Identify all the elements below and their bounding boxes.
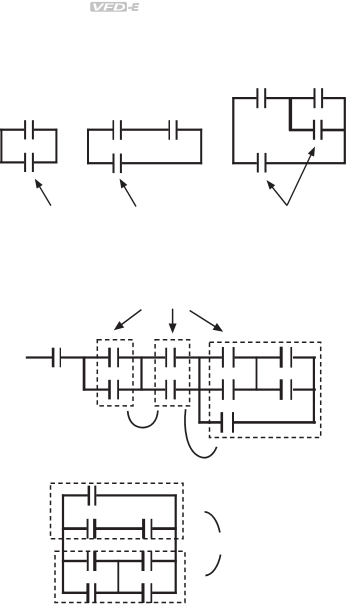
wire F2 top rail [87, 129, 113, 131]
arrow to F3 middle contact [287, 153, 312, 206]
wire F1 left vertical [0, 129, 2, 164]
arrow to F1 bottom contact [38, 184, 51, 205]
middle ladder diagram [26, 309, 321, 458]
contact F3 middle [313, 120, 315, 140]
dashed box 2 [155, 340, 190, 406]
contact F1 top [24, 120, 26, 139]
contact row D left [86, 583, 89, 603]
wire right rail of network [313, 356, 315, 423]
wire F2 left vertical [87, 129, 89, 165]
contact F3 top-right [314, 88, 316, 108]
wire right rail [175, 494, 177, 594]
fragment 3: bridge network [232, 88, 346, 205]
junction vertical J1 bold [83, 356, 86, 390]
curved arc under box1-box2 [128, 411, 158, 428]
contact A box3 row1 left [222, 347, 224, 368]
wire F3 right vertical [344, 97, 346, 164]
contact row C right [142, 551, 145, 571]
wire F3 top rail [232, 97, 256, 99]
junction vertical rowC-rowD [117, 560, 119, 594]
wire F3 middle vertical stub [289, 97, 292, 131]
wire row3 bold [198, 421, 220, 424]
junction vertical J2 [140, 356, 142, 390]
contact D box3 row2 right [280, 379, 283, 400]
contact F2 top-right [169, 120, 171, 140]
arrow to F2 bottom contact [123, 184, 136, 206]
arc right of upper box [205, 512, 220, 533]
contact row C left [87, 551, 89, 571]
contact B box3 row1 right [280, 347, 283, 368]
dashed box upper [51, 483, 184, 539]
logo VFD-E [90, 1, 139, 13]
contact box2 top [165, 348, 167, 368]
dashed box lower [55, 551, 185, 602]
dashed box 1 [97, 340, 133, 406]
arc right of lower box [205, 555, 220, 576]
contact M1 on main rung [52, 348, 55, 368]
contact box1 top [108, 348, 111, 368]
arrow into box3 [190, 311, 218, 329]
contact row B left [87, 519, 89, 539]
wire left rail [62, 494, 64, 594]
contact F2 top-left [113, 120, 115, 140]
contact box1 bottom [108, 380, 111, 400]
dashed box 3 [210, 342, 321, 437]
curved hook from box2 to box3 [185, 409, 217, 458]
arrow into box1 [119, 310, 141, 327]
wire F1 bottom rail [0, 161, 24, 163]
arrow to F3 bottom contact [271, 185, 287, 205]
contact row A [88, 486, 91, 506]
wire row A [62, 494, 88, 496]
wire F3 middle rail [289, 129, 314, 132]
contact C box3 row2 left [222, 379, 224, 400]
contact F2 bottom [113, 154, 115, 174]
contact F3 top-left [256, 88, 258, 108]
wire row D [62, 592, 87, 594]
junction vertical J3 [198, 356, 200, 423]
svg-text:-E: -E [128, 1, 139, 13]
wire F1 top rail [0, 129, 24, 131]
wire F2 right vertical [200, 129, 202, 165]
wire row C bold [62, 560, 87, 562]
contact F3 bottom [257, 153, 259, 173]
wire row B bold [62, 527, 87, 530]
wire F3 bottom rail [232, 162, 257, 164]
arrow into box2 [172, 309, 174, 327]
contact row B right [142, 519, 145, 539]
contact E box3 row3 [221, 412, 224, 433]
bottom ladder diagram [51, 483, 221, 603]
wire main rung [26, 356, 52, 358]
contact box2 bottom [165, 380, 167, 400]
wire lower branch row2 [83, 389, 108, 391]
contact F1 bottom [24, 153, 26, 172]
wire F3 left vertical [232, 97, 234, 164]
wire F1 right vertical [55, 129, 57, 164]
fragment 1: parallel contacts network [0, 120, 57, 205]
svg-text:VFD: VFD [92, 1, 127, 13]
contact row D right [142, 583, 145, 603]
wire F2 bottom rail [87, 162, 113, 164]
fragment 2: series-parallel network [87, 120, 202, 206]
junction vertical J4 [256, 356, 258, 390]
